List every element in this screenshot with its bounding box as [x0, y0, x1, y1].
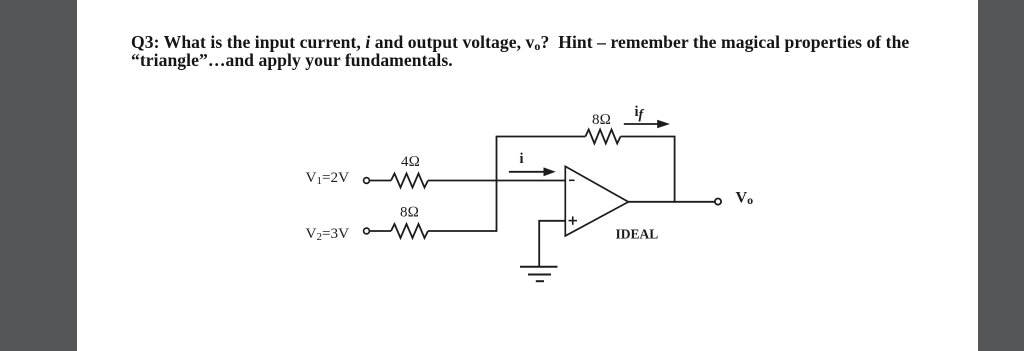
svg-text:8Ω: 8Ω — [592, 112, 611, 128]
svg-text:V1=2V: V1=2V — [306, 169, 350, 187]
right gray sidebar — [978, 0, 1024, 351]
svg-text:Vo: Vo — [736, 189, 754, 207]
terminal V1 (open circle) — [364, 178, 370, 184]
wire R1 to op-amp inverting input — [428, 180, 565, 182]
wire feedback top right — [621, 136, 676, 138]
svg-text:i: i — [520, 151, 524, 167]
op-amp plus sign — [569, 216, 578, 224]
terminal Vo (open circle) — [715, 199, 721, 205]
op-amp U1 triangle — [565, 166, 628, 236]
left gray sidebar — [0, 0, 77, 351]
wire V1 terminal to R1 — [369, 180, 391, 182]
resistor R2 8ohm — [391, 224, 428, 238]
svg-text:8Ω: 8Ω — [400, 205, 419, 221]
terminal V2 (open circle) — [364, 228, 370, 234]
resistor R1 4ohm — [391, 174, 428, 188]
wire feedback top left — [496, 136, 586, 138]
svg-text:V2=3V: V2=3V — [306, 225, 350, 243]
ground symbol — [520, 267, 558, 281]
resistor Rf 8ohm feedback — [585, 130, 620, 144]
svg-text:IDEAL: IDEAL — [616, 227, 659, 242]
wire op-amp output — [628, 201, 714, 203]
current arrow if — [624, 120, 670, 128]
wire feedback right vertical — [674, 137, 676, 203]
wire V2 terminal to R2 — [369, 230, 391, 232]
svg-text:4Ω: 4Ω — [401, 154, 420, 170]
wire R2 to summing node — [428, 230, 497, 232]
question text — [131, 33, 941, 71]
op-amp minus sign — [569, 179, 575, 181]
svg-text:if: if — [635, 104, 645, 123]
current arrow i — [509, 167, 556, 176]
wire summing node vertical — [496, 137, 498, 232]
wire non-inverting input — [539, 221, 565, 267]
